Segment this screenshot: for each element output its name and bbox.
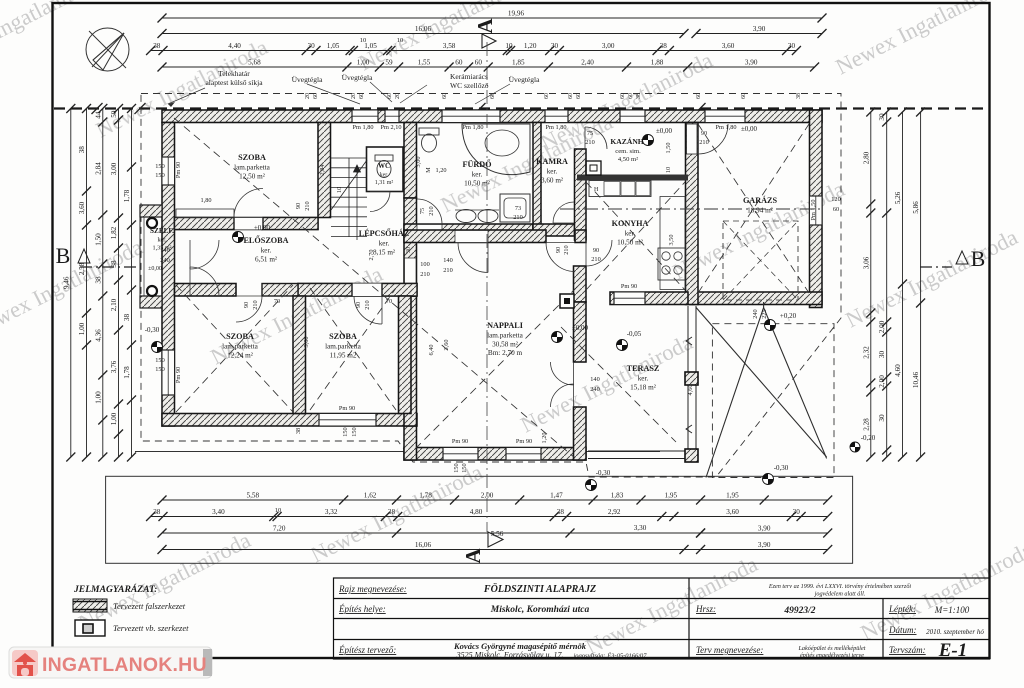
svg-text:4,60: 4,60 [894, 364, 902, 377]
svg-text:3,58: 3,58 [443, 42, 456, 50]
shower [500, 194, 530, 222]
glass block window furdo [442, 110, 500, 123]
svg-text:49923/2: 49923/2 [783, 606, 815, 616]
svg-text:Miskolc, Koromházi utca: Miskolc, Koromházi utca [490, 605, 590, 615]
svg-text:1,78: 1,78 [419, 492, 432, 500]
svg-text:210: 210 [428, 206, 435, 215]
bottom dimension enclosure box [106, 476, 853, 563]
nappali right wall upper [574, 302, 587, 362]
svg-text:SZOBA: SZOBA [226, 332, 254, 341]
door kamra south [553, 202, 574, 223]
svg-text:70: 70 [386, 298, 392, 305]
svg-text:Pm 1,80: Pm 1,80 [716, 124, 737, 131]
svg-text:INGATLANOK.HU: INGATLANOK.HU [42, 654, 207, 676]
svg-text:10,50 m²: 10,50 m² [617, 238, 643, 246]
svg-text:1,00: 1,00 [357, 59, 370, 67]
svg-text:70: 70 [274, 298, 280, 305]
svg-text:240: 240 [752, 309, 759, 318]
svg-text:2,00: 2,00 [878, 375, 886, 388]
svg-text:3,90: 3,90 [758, 541, 771, 549]
garage right exterior wall [810, 110, 823, 308]
wall kamra bottom [533, 224, 575, 236]
dimension chain top row 3.90 garage [696, 33, 822, 35]
svg-text:ker.: ker. [261, 247, 272, 255]
window szoba TL left [162, 157, 175, 185]
svg-text:Hrsz:: Hrsz: [695, 604, 716, 614]
svg-text:Pm 90: Pm 90 [452, 438, 468, 445]
svg-text:10: 10 [665, 167, 672, 173]
svg-text:2,00: 2,00 [878, 320, 886, 333]
svg-text:10,46: 10,46 [912, 372, 920, 389]
svg-text:Pm 90: Pm 90 [175, 162, 182, 178]
svg-text:3,76: 3,76 [110, 360, 118, 373]
benchmark symbol [586, 480, 597, 491]
svg-text:SZOBA: SZOBA [238, 153, 266, 162]
wall konyha west [574, 266, 587, 302]
svg-text:2,70: 2,70 [368, 249, 375, 260]
svg-text:TERASZ: TERASZ [627, 364, 660, 373]
svg-text:ker.: ker. [625, 230, 636, 238]
svg-text:16,06: 16,06 [415, 541, 432, 549]
svg-text:225: 225 [761, 309, 768, 318]
svg-text:90: 90 [355, 302, 362, 308]
garage left wall [686, 123, 699, 305]
terrace door leaf upper [551, 362, 574, 385]
window Pm1.80 top [352, 110, 378, 123]
svg-text:Tervezett vb. szerkezet: Tervezett vb. szerkezet [113, 623, 189, 633]
eloszoba wardrobe [176, 209, 234, 218]
column nappali-konyha corner [560, 294, 574, 308]
window szoba BL left [162, 350, 175, 395]
svg-text:GARÁZS: GARÁZS [743, 195, 778, 205]
svg-text:150: 150 [342, 427, 349, 436]
svg-text:150: 150 [155, 172, 164, 179]
svg-text:SZÉLF.: SZÉLF. [150, 225, 174, 235]
toilet wc [375, 155, 393, 161]
svg-text:38: 38 [123, 314, 131, 322]
wall furdo bottom [404, 224, 533, 236]
svg-text:4,50 m²: 4,50 m² [618, 156, 638, 163]
boiler [586, 161, 601, 175]
svg-text:KAMRA: KAMRA [536, 157, 568, 166]
section marker A bottom [461, 532, 503, 564]
svg-text:SZOBA: SZOBA [329, 332, 357, 341]
svg-text:210: 210 [443, 267, 452, 274]
svg-text:lam.parketta: lam.parketta [234, 164, 271, 172]
dimension chain top row chain 3 [151, 50, 797, 52]
svg-text:±0,00: ±0,00 [148, 266, 162, 272]
svg-text:30: 30 [878, 351, 886, 359]
svg-text:E-1: E-1 [938, 640, 968, 661]
svg-text:WC szellőző: WC szellőző [450, 81, 489, 90]
svg-text:KONYHA: KONYHA [612, 219, 649, 228]
svg-text:10: 10 [505, 42, 513, 50]
svg-text:3,90: 3,90 [745, 59, 758, 67]
svg-text:3,60: 3,60 [78, 201, 86, 214]
svg-text:2,28: 2,28 [862, 418, 870, 431]
svg-text:3,90: 3,90 [758, 525, 771, 533]
svg-text:-0,30: -0,30 [596, 469, 611, 477]
svg-text:60: 60 [833, 206, 839, 213]
svg-text:3,06: 3,06 [862, 256, 870, 269]
ingatlanok.hu logo [9, 647, 212, 678]
door szoba TL [234, 189, 263, 218]
svg-text:M=1:100: M=1:100 [934, 605, 970, 615]
roof overhang dashed outline [141, 94, 841, 478]
svg-text:3,60 m²: 3,60 m² [541, 176, 563, 184]
svg-text:10: 10 [275, 507, 282, 514]
svg-text:ker.: ker. [638, 375, 649, 383]
dimension chain top row 16.06 [162, 33, 684, 35]
svg-text:JELMAGYARÁZAT:: JELMAGYARÁZAT: [73, 583, 157, 595]
sinks [456, 210, 476, 223]
svg-text:ker.: ker. [547, 168, 558, 176]
dimension chain left col4 [118, 109, 120, 458]
section marker A top [473, 18, 497, 48]
svg-text:38: 38 [78, 146, 86, 154]
svg-text:12,50 m²: 12,50 m² [239, 172, 265, 180]
svg-text:2,80: 2,80 [862, 151, 870, 164]
svg-text:-0,20: -0,20 [861, 434, 876, 442]
window szoba BM bottom [319, 414, 376, 427]
svg-text:38: 38 [153, 508, 161, 516]
svg-text:30: 30 [405, 247, 412, 253]
legend wall sample [73, 599, 107, 612]
svg-text:1,31 m²: 1,31 m² [375, 180, 394, 186]
svg-text:±0,00: ±0,00 [572, 324, 589, 332]
svg-text:150: 150 [155, 366, 164, 373]
svg-text:30,58 m²: 30,58 m² [492, 340, 518, 348]
svg-text:6,51 m²: 6,51 m² [255, 255, 277, 263]
svg-text:építés engedélyezési terve: építés engedélyezési terve [800, 652, 864, 659]
svg-text:38: 38 [557, 508, 565, 516]
dimension chain bottom row4 [162, 549, 828, 551]
title block [334, 578, 990, 659]
svg-text:3,00: 3,00 [110, 162, 118, 175]
konyha bottom wall [610, 292, 688, 305]
svg-text:B: B [56, 243, 71, 268]
svg-text:Üvegtégla: Üvegtégla [292, 75, 323, 84]
svg-text:5,26: 5,26 [894, 191, 902, 204]
svg-text:jogvédelem alatt áll.: jogvédelem alatt áll. [814, 591, 866, 598]
bathtub [462, 124, 530, 175]
garage bottom wall [690, 292, 822, 305]
svg-text:210: 210 [304, 201, 311, 210]
svg-text:75: 75 [419, 208, 426, 214]
toilet furdo [419, 128, 439, 135]
benchmark symbol [788, 319, 790, 321]
svg-text:3,00: 3,00 [602, 42, 615, 50]
svg-text:2,40: 2,40 [581, 59, 594, 67]
svg-text:11,95 m2: 11,95 m2 [330, 351, 357, 359]
svg-text:3,60: 3,60 [726, 508, 739, 516]
svg-text:38: 38 [110, 260, 118, 268]
svg-text:6,40: 6,40 [428, 344, 435, 355]
svg-text:150: 150 [453, 463, 460, 472]
wall szobaBM right [399, 296, 412, 414]
dimension chain right col4 [920, 112, 922, 457]
legend rc sample [75, 620, 105, 636]
entry door leaf lower [190, 267, 219, 296]
svg-text:210: 210 [252, 300, 259, 309]
svg-text:A: A [473, 18, 497, 34]
svg-text:4,60: 4,60 [687, 384, 694, 395]
wall furdo-kamra [533, 123, 541, 237]
svg-text:2010. szeptember hó: 2010. szeptember hó [926, 628, 984, 636]
svg-text:120: 120 [831, 196, 840, 203]
svg-text:44: 44 [94, 111, 102, 119]
window garage right [810, 196, 823, 225]
svg-text:3,50: 3,50 [668, 234, 675, 245]
svg-text:210: 210 [364, 300, 371, 309]
svg-text:Pm 90: Pm 90 [516, 438, 532, 445]
svg-text:38: 38 [153, 42, 161, 50]
svg-text:90: 90 [701, 130, 707, 137]
svg-text:1,85: 1,85 [512, 59, 525, 67]
svg-text:150: 150 [461, 463, 468, 472]
exterior top wall [162, 110, 822, 123]
svg-text:A: A [461, 548, 485, 564]
nappali left wall [404, 296, 417, 426]
svg-text:lam.parketta: lam.parketta [487, 332, 524, 340]
svg-text:Ezen terv az 1999. évi LXXVI.: Ezen terv az 1999. évi LXXVI. törvény ér… [768, 583, 912, 590]
svg-text:1,20: 1,20 [435, 167, 446, 174]
svg-text:12,24 m²: 12,24 m² [227, 351, 253, 359]
svg-text:LÉPCSŐHÁZ: LÉPCSŐHÁZ [359, 228, 410, 238]
svg-text:-0,30: -0,30 [774, 464, 789, 472]
exterior left wall [162, 123, 175, 427]
svg-text:90: 90 [295, 203, 302, 209]
svg-text:30: 30 [878, 414, 886, 422]
svg-text:H: H [594, 187, 599, 193]
roof dashed diagonals [174, 118, 809, 458]
opening lepcsohaz-nappali [458, 243, 488, 273]
svg-text:Üvegtégla: Üvegtégla [509, 75, 540, 84]
svg-text:210: 210 [420, 271, 429, 278]
svg-text:3,60: 3,60 [443, 339, 450, 350]
svg-text:jogosultság: É3-05-0166/07: jogosultság: É3-05-0166/07 [572, 652, 647, 660]
svg-text:Pm 2,10: Pm 2,10 [381, 124, 402, 131]
svg-text:Pm 1,50: Pm 1,50 [810, 200, 817, 221]
svg-text:5,68: 5,68 [248, 59, 261, 67]
svg-text:ker.: ker. [157, 237, 167, 244]
section marker B right [920, 266, 952, 268]
dimension chain left col2 [86, 109, 88, 458]
svg-text:3,32: 3,32 [325, 508, 338, 516]
svg-text:150: 150 [351, 427, 358, 436]
svg-text:4,36: 4,36 [94, 329, 102, 342]
svg-text:1,50: 1,50 [665, 142, 672, 153]
svg-text:4,80: 4,80 [470, 508, 483, 516]
svg-text:Telekhatár: Telekhatár [218, 69, 250, 78]
svg-text:ker.: ker. [380, 173, 389, 179]
svg-text:59: 59 [385, 59, 393, 67]
svg-text:210: 210 [585, 139, 594, 146]
svg-text:Lépték:: Lépték: [888, 604, 916, 614]
dimension chain bottom row3 [162, 532, 828, 534]
svg-text:4,40: 4,40 [228, 42, 241, 50]
svg-text:1,78: 1,78 [123, 189, 131, 202]
vent kazanh [620, 110, 645, 123]
kazanh bottom wall [577, 175, 688, 181]
svg-text:210: 210 [699, 139, 708, 146]
dimension chain right col2 [886, 112, 888, 457]
svg-text:lam.parketta: lam.parketta [222, 343, 259, 351]
dimension chain left total 9.46 [70, 109, 72, 458]
svg-text:30: 30 [308, 42, 316, 50]
door kamra north [585, 127, 607, 149]
svg-text:18,94 m²: 18,94 m² [747, 207, 773, 215]
svg-text:Bm: 2,70 m: Bm: 2,70 m [488, 349, 523, 357]
svg-text:1,50: 1,50 [94, 233, 102, 246]
dimension chain bottom row1 [162, 499, 828, 501]
svg-text:3,60: 3,60 [303, 336, 310, 347]
svg-text:60: 60 [475, 59, 483, 67]
svg-text:1,95: 1,95 [665, 492, 678, 500]
benchmark symbol [552, 332, 563, 343]
svg-text:2,92: 2,92 [608, 508, 621, 516]
dimension chain left col3 [102, 109, 104, 458]
benchmark symbol [850, 442, 860, 452]
svg-text:Építés helye:: Építés helye: [338, 604, 386, 614]
svg-text:FÜRDŐ: FÜRDŐ [462, 159, 491, 169]
window kamra [545, 110, 568, 123]
door garage [698, 124, 728, 154]
svg-text:38: 38 [295, 428, 302, 434]
svg-text:15,18 m²: 15,18 m² [630, 383, 656, 391]
svg-text:210: 210 [513, 214, 522, 221]
door konyha west [586, 240, 612, 266]
door furdo [417, 199, 442, 224]
svg-text:90: 90 [593, 247, 599, 254]
svg-text:10: 10 [336, 187, 343, 193]
svg-text:7,20: 7,20 [273, 525, 286, 533]
svg-text:KAZÁNH.: KAZÁNH. [610, 136, 645, 146]
wall eloszoba-szobaBM [298, 284, 417, 297]
nappali left lower wall [404, 426, 417, 460]
svg-text:Pm 90: Pm 90 [175, 367, 182, 383]
wall szobaBL-szobaBM [293, 296, 306, 414]
svg-text:1,78: 1,78 [123, 366, 131, 379]
svg-text:38: 38 [94, 276, 102, 284]
svg-text:150: 150 [155, 357, 164, 364]
svg-text:Rajz megnevezése:: Rajz megnevezése: [338, 584, 407, 594]
svg-text:Kerámiarács: Kerámiarács [450, 72, 488, 81]
terrace door leaf lower [551, 384, 574, 407]
svg-text:Építész tervező:: Építész tervező: [338, 645, 396, 655]
svg-text:±0,00: ±0,00 [656, 127, 673, 135]
svg-text:3,30: 3,30 [634, 524, 647, 532]
svg-text:60: 60 [455, 59, 463, 67]
ridge dash-dot line [560, 208, 820, 210]
svg-text:Dátum:: Dátum: [888, 625, 917, 635]
svg-text:140: 140 [443, 257, 452, 264]
telekhatar property boundary dashed line [54, 107, 988, 109]
svg-text:2,10: 2,10 [110, 298, 118, 311]
svg-text:3,90: 3,90 [753, 25, 766, 33]
svg-text:1,05: 1,05 [327, 42, 340, 50]
svg-text:1,83: 1,83 [611, 492, 624, 500]
svg-text:38: 38 [388, 508, 396, 516]
szelf columns [147, 218, 157, 228]
wall lepcsohaz right [404, 198, 417, 296]
svg-text:1,20: 1,20 [541, 432, 548, 443]
svg-text:3,00: 3,00 [415, 156, 422, 167]
svg-text:140: 140 [590, 376, 599, 383]
svg-text:30: 30 [551, 42, 559, 50]
dimension chain left col5 [131, 109, 133, 458]
svg-text:5,56: 5,56 [491, 530, 504, 538]
wall eloszoba-szobaBL [175, 284, 237, 297]
svg-text:19,96: 19,96 [508, 10, 525, 18]
nappali right wall lower [574, 407, 587, 460]
section line A-A vertical [486, 42, 488, 532]
garage inner dashed square [723, 221, 798, 300]
door nappali north [546, 243, 575, 272]
benchmark symbol [233, 232, 244, 243]
terrace overhang dashed rect [712, 324, 834, 478]
svg-text:30: 30 [788, 42, 796, 50]
svg-text:1,95: 1,95 [726, 492, 739, 500]
svg-text:2,84: 2,84 [319, 164, 326, 176]
svg-text:3,60: 3,60 [722, 42, 735, 50]
svg-text:Pm 1,80: Pm 1,80 [546, 124, 567, 131]
svg-text:90: 90 [555, 247, 562, 253]
svg-text:140: 140 [160, 247, 169, 254]
svg-text:9,46: 9,46 [62, 276, 70, 289]
window Pm2.10 top [385, 110, 399, 123]
svg-text:73: 73 [515, 205, 521, 212]
svg-text:210: 210 [563, 245, 570, 254]
terrace edge lines [588, 306, 696, 462]
benchmark symbol [617, 340, 628, 351]
svg-text:3525 Miskolc, Forrásvölgy u. 1: 3525 Miskolc, Forrásvölgy u. 17. [456, 651, 564, 660]
dimension chain right col3 [902, 112, 904, 457]
svg-text:38: 38 [660, 42, 668, 50]
dimension chain top row total 19.96 [162, 17, 822, 19]
svg-text:1,80: 1,80 [200, 197, 211, 204]
window garage top [705, 110, 745, 123]
benchmark symbol [763, 474, 774, 485]
svg-text:5,86: 5,86 [912, 201, 920, 214]
svg-text:-0,30: -0,30 [145, 326, 160, 334]
svg-text:90: 90 [243, 302, 250, 308]
svg-text:Tervszám:: Tervszám: [889, 645, 926, 655]
svg-text:1,88: 1,88 [651, 59, 664, 67]
svg-text:5,58: 5,58 [247, 492, 260, 500]
svg-text:30: 30 [793, 508, 801, 516]
svg-text:150: 150 [155, 163, 164, 170]
svg-text:NAPPALI: NAPPALI [487, 321, 523, 330]
svg-text:Pm 90: Pm 90 [339, 405, 355, 412]
svg-text:100: 100 [420, 261, 429, 268]
svg-text:10,50 m²: 10,50 m² [464, 179, 490, 187]
svg-text:ker.: ker. [379, 240, 390, 248]
wall szobaTL-eloszoba [175, 218, 319, 230]
svg-text:Tervezett falszerkezet: Tervezett falszerkezet [113, 601, 186, 611]
nappali bottom wall [404, 448, 586, 461]
svg-text:+0,20: +0,20 [780, 312, 797, 320]
door wc [370, 192, 390, 212]
window konyha [614, 292, 645, 305]
svg-text:-0,05: -0,05 [627, 330, 642, 338]
svg-text:1,00: 1,00 [110, 412, 118, 425]
dimension chain right col1 [870, 112, 872, 457]
svg-text:Pm 1,80: Pm 1,80 [463, 124, 484, 131]
benchmark symbol [152, 342, 163, 353]
exterior bottom-left wall [162, 414, 417, 427]
svg-text:Pm 90: Pm 90 [621, 283, 637, 290]
